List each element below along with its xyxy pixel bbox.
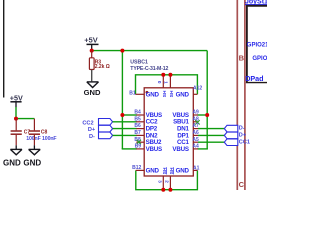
net flag CC1 right bbox=[224, 139, 250, 146]
net flag D+ right bbox=[224, 132, 247, 139]
power flag +5V (left) bbox=[10, 94, 23, 108]
svg-text:SH: SH bbox=[162, 90, 168, 97]
svg-text:VBUS: VBUS bbox=[172, 146, 188, 153]
pin A12 bbox=[193, 93, 197, 95]
svg-text:B: B bbox=[239, 54, 245, 63]
wire A6 to D+ bbox=[198, 134, 224, 136]
ground under C8 bbox=[29, 149, 41, 154]
net flag D+ bbox=[88, 125, 113, 133]
svg-text:TYPE-C-31-M-12: TYPE-C-31-M-12 bbox=[130, 66, 168, 72]
svg-text:VBUS: VBUS bbox=[146, 146, 162, 153]
pin A8 bbox=[193, 121, 198, 123]
svg-text:CC1: CC1 bbox=[239, 139, 250, 145]
svg-text:GND: GND bbox=[146, 167, 160, 174]
pin B7 bbox=[136, 134, 144, 136]
svg-text:CC2: CC2 bbox=[82, 120, 93, 126]
svg-text:GND: GND bbox=[146, 91, 160, 98]
svg-text:GND: GND bbox=[176, 91, 190, 98]
svg-text:3: 3 bbox=[157, 180, 162, 183]
net flag D- right bbox=[224, 125, 245, 132]
svg-text:D+: D+ bbox=[88, 127, 96, 133]
pin A1 bbox=[193, 169, 197, 171]
svg-text:B5: B5 bbox=[134, 116, 141, 122]
pin A9 bbox=[193, 114, 198, 116]
pin A4 bbox=[193, 148, 198, 150]
shell pin top 2 bbox=[169, 75, 171, 88]
wire B9 branch bbox=[122, 148, 137, 150]
wire VBUS right vertical bbox=[206, 51, 208, 149]
svg-text:2: 2 bbox=[165, 180, 170, 183]
left component edge (cut off box) bbox=[3, 0, 5, 98]
net flag CC2 bbox=[82, 119, 112, 127]
svg-text:A12: A12 bbox=[193, 86, 202, 92]
svg-text:A4: A4 bbox=[192, 144, 199, 150]
pin names left column bbox=[146, 91, 162, 174]
junction dot shell bottom 1 bbox=[161, 188, 165, 192]
svg-text:A5: A5 bbox=[192, 137, 199, 143]
svg-text:SH: SH bbox=[169, 167, 175, 174]
wire A7 to D- bbox=[198, 128, 224, 130]
svg-text:0: 0 bbox=[157, 81, 162, 84]
junction dot caps bbox=[14, 117, 18, 121]
wire D- to B7 bbox=[113, 134, 137, 136]
svg-text:+5V: +5V bbox=[84, 35, 97, 44]
junction dot shell bottom 2 bbox=[168, 188, 172, 192]
wire D+ to B6 bbox=[113, 128, 137, 130]
wire A5 to CC1 bbox=[198, 141, 224, 143]
svg-text:B12: B12 bbox=[132, 165, 141, 171]
pin B6 bbox=[136, 128, 144, 130]
wire A9 branch bbox=[198, 114, 208, 116]
svg-text:A1: A1 bbox=[193, 166, 200, 172]
pin B12 bbox=[136, 169, 144, 171]
hierarchical sheet box (JoySt module, cut off) bbox=[246, 6, 248, 83]
svg-text:SH: SH bbox=[162, 167, 168, 174]
ground under R3 bbox=[87, 82, 99, 88]
net flag D- bbox=[89, 132, 113, 140]
svg-text:D-: D- bbox=[89, 134, 95, 140]
shell pin top 1 bbox=[162, 75, 164, 88]
wire B4 branch bbox=[122, 114, 136, 116]
pin B4 bbox=[136, 114, 144, 116]
junction dot shell top 2 bbox=[168, 73, 172, 77]
pin A7 bbox=[193, 128, 198, 130]
junction dot B4 bbox=[120, 113, 124, 117]
wire A4 branch bbox=[198, 148, 208, 150]
svg-text:2.2k Ω: 2.2k Ω bbox=[95, 64, 110, 70]
wire +5V to caps bbox=[15, 107, 17, 119]
frame border line 2 bbox=[244, 0, 246, 190]
svg-text:DPad: DPad bbox=[245, 74, 263, 83]
pin B1 bbox=[136, 93, 145, 95]
wire +5V rail bbox=[92, 50, 208, 52]
pin B8 bbox=[136, 141, 144, 143]
frame border line 1 bbox=[236, 0, 238, 190]
wire VBUS left vertical bbox=[121, 51, 123, 149]
svg-text:GPIO0: GPIO0 bbox=[252, 56, 267, 62]
pin B5 bbox=[136, 121, 144, 123]
svg-text:C8: C8 bbox=[41, 130, 48, 136]
pin A6 bbox=[193, 134, 198, 136]
pin A5 bbox=[193, 141, 198, 143]
shell pin bottom 2 bbox=[169, 176, 171, 190]
no-connect X at B8 bbox=[137, 140, 141, 144]
junction dot rail-R3 bbox=[90, 49, 94, 53]
capacitor C8 bbox=[29, 119, 57, 150]
power flag +5V (top) bbox=[84, 35, 98, 49]
pin names right column bbox=[172, 91, 189, 174]
svg-text:A7: A7 bbox=[192, 123, 199, 129]
connector body bbox=[144, 88, 193, 176]
svg-text:GND: GND bbox=[176, 167, 190, 174]
svg-text:D+: D+ bbox=[239, 132, 247, 138]
resistor R3 bbox=[89, 51, 109, 82]
junction dot rail-B4/B9 bbox=[120, 49, 124, 53]
svg-text:B7: B7 bbox=[134, 130, 141, 136]
svg-text:GPIO21: GPIO21 bbox=[247, 42, 267, 48]
pin B9 bbox=[136, 148, 144, 150]
top GND loop wire bbox=[136, 75, 198, 95]
svg-text:1: 1 bbox=[163, 81, 168, 84]
svg-text:GND: GND bbox=[84, 88, 101, 97]
svg-text:B1: B1 bbox=[129, 91, 136, 97]
no-connect X at A8 bbox=[195, 120, 199, 124]
svg-text:B9: B9 bbox=[135, 144, 142, 150]
svg-text:SH: SH bbox=[169, 90, 175, 97]
svg-text:B8: B8 bbox=[134, 137, 141, 143]
svg-text:100nF: 100nF bbox=[42, 136, 57, 142]
ground under C7 bbox=[10, 149, 22, 154]
svg-text:GND: GND bbox=[3, 158, 21, 167]
svg-text:GND: GND bbox=[23, 158, 41, 167]
svg-text:100nF: 100nF bbox=[26, 136, 41, 142]
pin 1 marker dot bbox=[146, 91, 149, 94]
bottom GND loop wire bbox=[136, 170, 198, 189]
svg-text:USBC1: USBC1 bbox=[130, 59, 148, 65]
svg-text:D-: D- bbox=[239, 126, 245, 132]
svg-text:B6: B6 bbox=[134, 123, 141, 129]
svg-text:B4: B4 bbox=[134, 110, 141, 116]
svg-text:A6: A6 bbox=[192, 130, 199, 136]
shell pin bottom 1 bbox=[162, 176, 164, 190]
wire CC2 to B5 bbox=[113, 121, 137, 123]
svg-text:C: C bbox=[239, 180, 245, 189]
svg-text:A9: A9 bbox=[192, 110, 199, 116]
capacitor C7 bbox=[11, 119, 41, 150]
junction dot A9 bbox=[205, 113, 209, 117]
junction dot shell top 1 bbox=[161, 73, 165, 77]
